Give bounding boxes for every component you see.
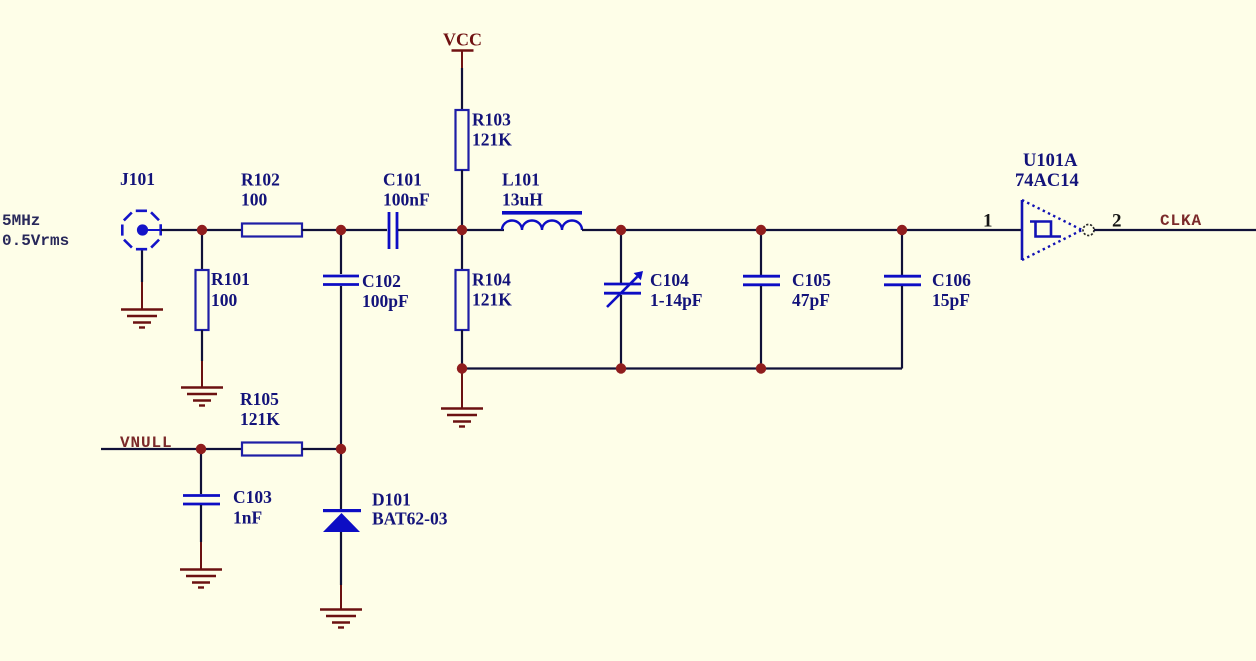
junction — [457, 225, 467, 235]
ground under R104 — [441, 409, 483, 427]
svg-text:1-14pF: 1-14pF — [650, 290, 703, 310]
svg-text:100: 100 — [211, 290, 238, 310]
resistor R103 — [456, 110, 469, 170]
inductor L101 — [502, 211, 582, 230]
svg-text:R101: R101 — [211, 269, 250, 289]
wire C101 to node C — [398, 229, 462, 231]
diode D101 — [323, 509, 361, 532]
capacitor C103 — [183, 496, 220, 505]
svg-text:CLKA: CLKA — [1160, 212, 1202, 230]
junction — [756, 363, 766, 373]
svg-text:121K: 121K — [240, 409, 280, 429]
wire C102 down to VNULL row — [340, 286, 342, 449]
svg-text:D101: D101 — [372, 490, 411, 510]
capacitor C102 — [323, 276, 359, 285]
svg-text:2: 2 — [1112, 211, 1122, 232]
wire node B down to C102 — [340, 230, 342, 274]
junction — [336, 225, 346, 235]
op-amp U101A schmitt inverter — [1022, 200, 1094, 260]
wire C105 bottom lead — [760, 286, 762, 369]
wire VNULL row — [101, 448, 242, 450]
svg-text:C103: C103 — [233, 487, 272, 507]
resistor R102 — [242, 224, 302, 237]
svg-text:74AC14: 74AC14 — [1015, 171, 1079, 191]
resistor R105 — [242, 443, 302, 456]
svg-text:1: 1 — [983, 211, 993, 232]
resistor R104 — [456, 270, 469, 330]
connector J101 — [122, 211, 162, 249]
wire red lead to ground — [141, 282, 143, 309]
svg-text:13uH: 13uH — [502, 190, 543, 210]
wire C106 top lead — [901, 230, 903, 275]
wire VCC to R103 — [461, 68, 463, 110]
junction — [616, 225, 626, 235]
junction — [336, 444, 346, 454]
svg-text:R103: R103 — [472, 110, 511, 130]
svg-text:C104: C104 — [650, 270, 689, 290]
svg-text:C105: C105 — [792, 270, 831, 290]
wire C104 top lead — [620, 230, 622, 283]
capacitor C104 variable — [604, 284, 641, 293]
svg-text:15pF: 15pF — [932, 290, 970, 310]
junction — [897, 225, 907, 235]
wire node J down to C103 — [200, 449, 202, 494]
svg-text:L101: L101 — [502, 170, 540, 190]
svg-text:R102: R102 — [241, 170, 280, 190]
svg-text:5MHz: 5MHz — [2, 212, 40, 230]
wire C106 bottom lead — [901, 286, 903, 369]
junction — [616, 363, 626, 373]
wire U101A output to CLKA — [1094, 229, 1256, 231]
wire J101 to R102 — [161, 229, 242, 231]
capacitor C105 — [743, 276, 780, 285]
wire C104 bottom lead — [620, 295, 622, 369]
svg-text:R104: R104 — [472, 270, 511, 290]
ground under D101 — [320, 610, 362, 628]
svg-text:1nF: 1nF — [233, 508, 262, 528]
wire R101 to ground — [201, 330, 203, 361]
svg-text:VCC: VCC — [443, 30, 482, 50]
wire D101 to ground — [340, 532, 342, 585]
wire node C down to R104 — [461, 230, 463, 270]
wire R103 to node C — [461, 170, 463, 230]
svg-text:47pF: 47pF — [792, 290, 830, 310]
wire node C to L101 — [462, 229, 504, 231]
wire red lead node D to ground — [461, 369, 463, 409]
svg-text:100nF: 100nF — [383, 190, 430, 210]
svg-text:100pF: 100pF — [362, 291, 409, 311]
capacitor C106 — [884, 276, 921, 285]
junction — [197, 225, 207, 235]
resistor R101 — [196, 270, 209, 330]
wire R104 to node D — [461, 330, 463, 369]
wire C103 to ground — [200, 505, 202, 542]
wire node A down to R101 — [201, 230, 203, 270]
svg-text:R105: R105 — [240, 389, 279, 409]
svg-text:0.5Vrms: 0.5Vrms — [2, 232, 69, 250]
svg-text:121K: 121K — [472, 130, 512, 150]
svg-text:U101A: U101A — [1023, 151, 1078, 171]
junction — [196, 444, 206, 454]
wire L101 to U101A input — [582, 229, 1022, 231]
wire R102 to C101 — [302, 229, 387, 231]
wire C105 top lead — [760, 230, 762, 275]
svg-text:C102: C102 — [362, 271, 401, 291]
junction — [756, 225, 766, 235]
svg-text:C106: C106 — [932, 270, 971, 290]
capacitor C101 — [389, 212, 397, 249]
ground under J101 — [121, 310, 163, 328]
svg-text:100: 100 — [241, 190, 268, 210]
svg-text:BAT62-03: BAT62-03 — [372, 509, 448, 529]
svg-text:C101: C101 — [383, 170, 422, 190]
svg-text:J101: J101 — [120, 169, 155, 189]
ground under R101 — [181, 388, 223, 406]
ground under C103 — [180, 570, 222, 588]
svg-text:121K: 121K — [472, 290, 512, 310]
wire node K down to D101 — [340, 449, 342, 509]
wire bottom bus — [462, 367, 902, 369]
wire R105 to node K — [302, 448, 341, 450]
junction — [457, 363, 467, 373]
wire J101 down lead — [141, 251, 143, 283]
